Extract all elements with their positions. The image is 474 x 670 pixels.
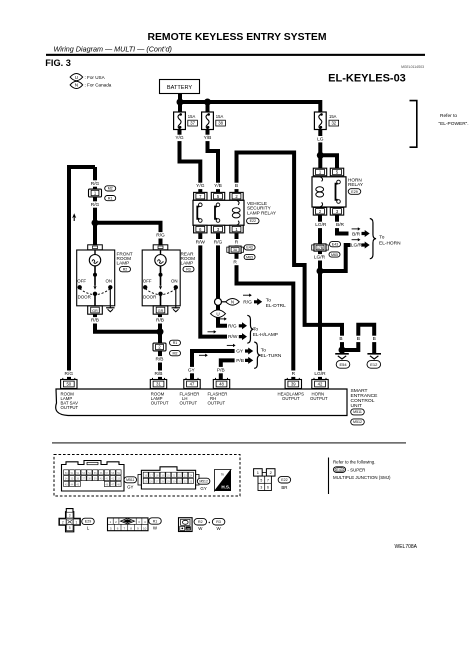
svg-text:GR: GR (92, 309, 98, 313)
battery (160, 80, 200, 94)
svg-text:R3: R3 (186, 267, 191, 271)
wire LG/R branch to EL-HORN (320, 245, 351, 271)
svg-text:U: U (216, 311, 219, 316)
terminal 31 function (151, 391, 169, 405)
junction dot R/B (157, 328, 164, 335)
header rule (46, 54, 425, 56)
svg-text:WEL708A: WEL708A (394, 544, 417, 550)
connector face M511 (62, 461, 125, 492)
svg-text:N: N (75, 83, 78, 88)
svg-text:GR: GR (158, 309, 164, 313)
ref E22 face (278, 477, 291, 490)
horn relay E29 (312, 177, 346, 207)
connector 2 (R1/M2) (153, 343, 166, 351)
label R/W H/LAMP (228, 334, 238, 340)
USA marker U (211, 310, 226, 318)
wire fuse38 tap (206, 102, 210, 112)
svg-text:UNIT: UNIT (351, 403, 362, 409)
svg-text:R/W: R/W (228, 334, 238, 340)
junction dot LG/R (317, 268, 324, 275)
svg-text:L: L (87, 525, 90, 530)
wire branch to horn relay pin5 (320, 155, 337, 168)
wire R/G relay pin3 to option circle (216, 234, 220, 299)
arrow B/R to EL-HORN (362, 230, 370, 237)
wire B to relay pin2 from ground run (237, 153, 343, 351)
ref R2 face (194, 519, 207, 532)
label R terminal 39 (290, 371, 297, 378)
svg-text:BR: BR (281, 485, 287, 490)
svg-text:R/B: R/B (156, 318, 164, 324)
legend Canada marker (70, 81, 112, 88)
svg-text:E43: E43 (332, 242, 338, 246)
sheet code (328, 72, 406, 84)
svg-text:OUTPUT: OUTPUT (151, 400, 169, 405)
doc number (401, 65, 424, 69)
direction arrow R/G H/LAMP (218, 317, 227, 320)
fuse 37 15A (174, 112, 198, 130)
svg-text:B: B (357, 336, 360, 342)
label R pin1 (233, 239, 240, 246)
legend USA marker (70, 74, 106, 81)
svg-text:OUTPUT: OUTPUT (61, 405, 79, 410)
svg-text:3: 3 (260, 486, 262, 490)
svg-text:7: 7 (267, 479, 269, 483)
junction dot ground B (339, 347, 346, 354)
svg-text:M512: M512 (199, 479, 208, 483)
label R/B terminal 31 (153, 371, 164, 378)
svg-text:EL-HORN: EL-HORN (379, 241, 401, 247)
svg-text:R/G: R/G (243, 300, 252, 306)
svg-text:U: U (75, 75, 78, 80)
label R/G rear lamp (155, 232, 166, 239)
connector face R1 (108, 518, 149, 531)
refer to the following note (329, 458, 392, 495)
connector face M512 (138, 467, 199, 489)
front room lamp R2 (77, 245, 133, 314)
label Y/G (174, 135, 185, 142)
text To EL-H/LAMP (253, 327, 278, 338)
svg-text:OUTPUT: OUTPUT (310, 396, 328, 401)
horn relay pin 5 (330, 168, 343, 176)
svg-text:39: 39 (291, 382, 296, 387)
label GY terminal 47 (187, 367, 195, 374)
label LG/R horn pin2 (314, 222, 328, 229)
svg-text:OUTPUT: OUTPUT (282, 396, 300, 401)
svg-text:R/B: R/B (91, 318, 99, 324)
terminal 50 function (61, 391, 79, 410)
svg-text:R: R (292, 371, 296, 377)
svg-text:- SUPER: - SUPER (348, 467, 366, 472)
svg-text:48: 48 (219, 382, 224, 387)
arrow GY to EL-TURN (245, 348, 253, 355)
wire LG/R horn pin2 to terminal 42 (318, 216, 322, 380)
svg-text:: For USA: : For USA (85, 75, 106, 80)
terminal 47 function (180, 391, 200, 405)
subtitle (54, 45, 172, 54)
direction arrow R/G DTRL (243, 294, 252, 297)
option circle on R/G (215, 298, 222, 305)
terminal 47 (184, 378, 200, 389)
svg-text:To: To (379, 235, 384, 241)
svg-text:5: 5 (260, 479, 262, 483)
wire B middle ground link (342, 325, 374, 353)
svg-text:M512: M512 (353, 420, 362, 424)
svg-text:5: 5 (69, 526, 71, 530)
svg-text:ON: ON (171, 279, 178, 284)
terminal 42 (312, 378, 328, 389)
H.S. mark (215, 470, 232, 492)
svg-text:B/R: B/R (352, 231, 361, 237)
svg-text:R/W: R/W (196, 240, 206, 246)
relay contact pins 7-6 (197, 203, 202, 222)
label B/R out (352, 231, 361, 237)
svg-text:R/G: R/G (156, 233, 165, 239)
direction arrow LG/R (352, 238, 361, 241)
svg-text:LG: LG (317, 137, 324, 143)
label B middle (355, 336, 362, 343)
relay name (247, 201, 277, 215)
svg-text:R/G: R/G (214, 240, 223, 246)
horn relay name (348, 178, 364, 188)
wire R/W relay pin6 to EL-H/LAMP (200, 234, 227, 337)
svg-text:EL-H/LAMP: EL-H/LAMP (253, 332, 278, 338)
label R/G terminal 50 (63, 371, 74, 378)
label LG/R out (351, 243, 363, 249)
svg-text:LAMP: LAMP (117, 261, 130, 266)
svg-text:E29: E29 (85, 520, 91, 524)
brace EL-H/LAMP (247, 315, 253, 343)
brace EL-HORN (370, 219, 376, 259)
svg-text:R/G: R/G (65, 371, 74, 377)
direction arrow GY (227, 344, 236, 347)
svg-text:M511: M511 (353, 410, 362, 414)
wire Y/G fuse37 to relay pin7 (180, 130, 201, 193)
svg-text:OFF: OFF (143, 279, 152, 284)
svg-text:LG/R: LG/R (315, 222, 327, 228)
svg-text:W: W (198, 526, 203, 531)
svg-text:RELAY: RELAY (348, 182, 364, 187)
svg-text:R/B: R/B (155, 371, 163, 377)
terminal 31 (150, 378, 166, 389)
relay pin 1 (230, 225, 243, 233)
ref M512 face (197, 478, 210, 491)
horn relay ref E29 (348, 189, 361, 195)
svg-text:47: 47 (190, 382, 195, 387)
svg-text:Refer to the following.: Refer to the following. (333, 459, 375, 464)
svg-text:R3: R3 (216, 520, 221, 524)
svg-text:37: 37 (190, 121, 195, 126)
figure label (45, 58, 71, 68)
svg-text:MGEL0114S03: MGEL0114S03 (401, 65, 424, 69)
svg-text:R: R (235, 240, 239, 246)
arrow R/W to EL-H/LAMP (239, 333, 247, 340)
svg-text:M2: M2 (173, 351, 178, 355)
relay pin 5 (211, 192, 224, 200)
svg-text:38: 38 (218, 121, 223, 126)
ref E43 at 17B (330, 242, 341, 247)
wire R/B front lamp to junction (95, 314, 160, 332)
label P/B terminal 48 (215, 367, 226, 374)
svg-text:N: N (231, 299, 234, 304)
label P/B TURN (236, 358, 244, 364)
arrow P/B to EL-TURN (245, 357, 253, 364)
direction arrow R/W (208, 330, 217, 333)
svg-text:DOOR: DOOR (143, 294, 156, 299)
label R/G H/LAMP (228, 323, 237, 329)
svg-text:EL-TURN: EL-TURN (261, 353, 282, 359)
relay connector ref E22 (247, 218, 259, 224)
svg-text:W: W (153, 525, 158, 530)
connector face E22 (254, 469, 275, 491)
svg-text:LG/R: LG/R (351, 243, 363, 249)
junction dot room lamp feed (92, 219, 99, 226)
svg-text:3A: 3A (233, 248, 238, 252)
label Y/G pin7 (195, 183, 206, 190)
svg-text:GY: GY (188, 367, 196, 373)
wire Y/B fuse38 to relay pin5 (208, 130, 219, 193)
ref M2 (105, 186, 116, 191)
connector 3A (SMJ) (227, 246, 244, 253)
svg-text:R2: R2 (198, 520, 203, 524)
svg-text:E22: E22 (281, 478, 287, 482)
ref M512 (351, 419, 365, 425)
svg-text:ON: ON (106, 279, 113, 284)
svg-text:TK: TK (221, 473, 225, 477)
svg-text:R1: R1 (153, 519, 158, 523)
svg-text:R/G: R/G (228, 323, 237, 329)
ground E54 (335, 354, 350, 368)
svg-text:Y/G: Y/G (196, 183, 205, 189)
svg-text:FIG. 3: FIG. 3 (45, 58, 71, 68)
label B pin2 (233, 183, 240, 190)
terminal 39 (285, 378, 301, 389)
ref E29 face (82, 518, 95, 530)
svg-text:1: 1 (76, 520, 78, 524)
svg-text:B/R: B/R (336, 222, 345, 228)
label LG/R below 17B (313, 254, 327, 261)
ref M65 at 3A (244, 254, 255, 259)
arrow LG/R to EL-HORN (362, 242, 370, 249)
svg-text:EL-DTRL: EL-DTRL (266, 303, 286, 309)
terminal 42 function (310, 391, 328, 401)
horn relay pin 1 (313, 168, 326, 176)
svg-text:R/B: R/B (156, 357, 164, 363)
wire fuse37 tap (178, 102, 182, 112)
svg-text:To: To (266, 298, 271, 304)
label B left (337, 336, 344, 343)
svg-text:H.S.: H.S. (221, 485, 230, 490)
label Y/B (202, 135, 213, 142)
brace EL-TURN (254, 342, 260, 368)
wire R/G below circle through U to EL-H/LAMP (218, 305, 227, 326)
fuse 38 15A (202, 112, 226, 130)
svg-text:E43: E43 (246, 246, 252, 250)
horn relay contact pins 5-3 (336, 180, 341, 203)
svg-text:R/G: R/G (91, 181, 100, 187)
junction dot battery left (177, 99, 184, 106)
arrow to EL-DTRL (254, 298, 262, 305)
label R/G above connector 1 (89, 180, 100, 187)
svg-text:32: 32 (331, 121, 336, 126)
svg-text:LG/R: LG/R (314, 255, 326, 261)
label Y/B pin5 (212, 183, 223, 190)
wire LG fuse32 to horn relay (318, 130, 322, 169)
svg-text:Wiring Diagram — MULTI — (Cont: Wiring Diagram — MULTI — (Cont’d) (54, 45, 172, 54)
up arrow on rail (72, 213, 76, 221)
svg-text:M65: M65 (246, 255, 253, 259)
svg-text:R: R (233, 259, 237, 265)
svg-text:REMOTE KEYLESS ENTRY SYSTEM: REMOTE KEYLESS ENTRY SYSTEM (148, 32, 327, 43)
ref M511 (351, 409, 365, 415)
terminal 50 (61, 378, 77, 389)
rear room lamp R3 (142, 245, 195, 314)
terminal 39 function (278, 391, 305, 401)
connector 1 (M2/R1) (89, 189, 102, 197)
ref M511 face (124, 477, 137, 490)
svg-text:Refer to: Refer to (440, 113, 457, 119)
label GY TURN (236, 349, 244, 355)
label LG/R terminal 42 (313, 371, 327, 378)
svg-text:B: B (339, 336, 342, 342)
svg-text:31: 31 (156, 382, 161, 387)
svg-text:OUTPUT: OUTPUT (208, 400, 226, 405)
svg-text:R1: R1 (108, 196, 113, 200)
svg-text:M65: M65 (331, 253, 338, 257)
label B right (371, 336, 378, 343)
svg-text:15A: 15A (188, 114, 196, 119)
svg-text:GY: GY (236, 349, 244, 355)
drawing number (394, 544, 417, 550)
svg-text:P/B: P/B (236, 358, 244, 364)
wire GY terminal 47 to EL-TURN (192, 351, 235, 380)
label R/G pin3 (212, 239, 223, 246)
ref R1 (105, 196, 116, 201)
label R below 3A (232, 259, 239, 266)
svg-text:To: To (261, 348, 266, 354)
label R/B front lamp (89, 317, 100, 324)
connector 17B (SMJ) (312, 244, 329, 251)
wire circle to N marker (222, 301, 227, 303)
svg-text:E12: E12 (370, 362, 378, 367)
relay coil pins 2-1 (232, 200, 240, 225)
svg-text:Y/G: Y/G (175, 135, 184, 141)
ref R3 face (212, 519, 225, 532)
label R/G below connector 1 (89, 201, 100, 208)
separator rule (52, 442, 406, 443)
wire B/R horn pin3 to EL-HORN (337, 216, 349, 234)
svg-text:OUTPUT: OUTPUT (180, 400, 198, 405)
wire R/B rear lamp down to terminal 31 (158, 314, 162, 379)
connector face E29 cross (59, 509, 80, 532)
arrow R/G to EL-H/LAMP (239, 322, 247, 329)
svg-text:GY: GY (200, 486, 206, 491)
smart entrance control unit box (56, 389, 347, 416)
svg-text:R2: R2 (123, 267, 128, 271)
label R/B rear lamp (154, 317, 165, 324)
fuse 32 15A (314, 112, 338, 130)
svg-text:B: B (235, 183, 238, 189)
svg-text:10: 10 (143, 527, 147, 531)
wire R/G to room lamps (95, 167, 161, 245)
label R/B below connector 2 (154, 356, 165, 363)
svg-text:42: 42 (318, 382, 323, 387)
relay pin 3 (211, 225, 224, 233)
svg-text:LG/R: LG/R (314, 371, 326, 377)
svg-text:BATTERY: BATTERY (167, 85, 193, 91)
relay pin 2 (230, 192, 243, 200)
direction arrow B/R (352, 227, 361, 230)
svg-text:M511: M511 (126, 478, 134, 482)
svg-text:OFF: OFF (77, 279, 86, 284)
svg-text:: For Canada: : For Canada (85, 83, 112, 88)
svg-text:“EL-POWER”.: “EL-POWER”. (439, 121, 469, 127)
ref M2 at connector 2 (170, 351, 181, 356)
label LG (316, 136, 324, 143)
svg-text:P/B: P/B (217, 367, 225, 373)
ref R1 face (149, 518, 162, 531)
svg-text:MULTIPLE JUNCTION (SMJ): MULTIPLE JUNCTION (SMJ) (333, 475, 391, 480)
svg-text:LAMP: LAMP (181, 261, 194, 266)
svg-text:15A: 15A (216, 114, 224, 119)
Canada marker N (226, 299, 240, 306)
text To EL-DTRL (266, 298, 286, 309)
svg-text:M2: M2 (108, 187, 113, 191)
dot between R2 R3 (209, 522, 210, 523)
svg-text:W: W (217, 526, 222, 531)
text To EL-TURN (261, 348, 282, 359)
wire E54 ground stub (340, 350, 344, 353)
svg-text:GY: GY (127, 485, 133, 490)
svg-text:B: B (373, 336, 376, 342)
text To EL-HORN (379, 235, 401, 247)
horn relay coil pins 1-2 (316, 177, 324, 207)
page title (148, 32, 327, 43)
direction arrow P/B (199, 354, 208, 357)
terminal 48 (213, 378, 229, 389)
svg-text:Y/B: Y/B (204, 135, 212, 141)
relay pin 7 (194, 192, 207, 200)
wire R relay pin1 to terminal 39 (237, 234, 294, 380)
ref R1 at connector 2 (170, 340, 181, 345)
relay contact pins 5-3 (215, 203, 220, 222)
ground E12 (367, 354, 381, 368)
wire P/B terminal 48 to EL-TURN (221, 360, 235, 379)
svg-text:50: 50 (66, 382, 71, 387)
svg-text:6: 6 (267, 486, 269, 490)
wire R/G left rail terminal 50 (69, 167, 95, 380)
ref E43 at 3A (244, 245, 255, 250)
label B/R horn pin3 (334, 222, 345, 229)
svg-text:17B: 17B (317, 246, 324, 250)
label R/G DTRL (243, 300, 252, 306)
connector detail dashed box (54, 455, 240, 497)
svg-text:Y/B: Y/B (214, 183, 222, 189)
svg-text:EL-KEYLES-03: EL-KEYLES-03 (328, 72, 406, 84)
svg-text:2: 2 (62, 520, 64, 524)
relay pin 6 (194, 225, 207, 233)
svg-text:To: To (253, 327, 258, 333)
svg-text:R/G: R/G (91, 202, 100, 208)
terminal 48 function (208, 391, 228, 405)
ref M65 at 17B (329, 252, 340, 257)
junction dot LG (317, 152, 324, 159)
svg-text:15A: 15A (329, 114, 337, 119)
junction dot battery right (204, 99, 211, 106)
horn relay pin 2 (313, 208, 326, 216)
svg-text:DOOR: DOOR (78, 294, 91, 299)
refer to EL-POWER bracket (410, 101, 469, 148)
wire battery feed and bus (178, 94, 320, 113)
